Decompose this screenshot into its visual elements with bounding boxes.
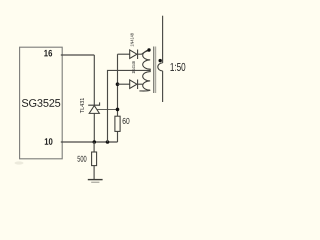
transformer T1 primary winding lower xyxy=(143,70,151,90)
wire TL431 anode down xyxy=(93,113,95,142)
wire resistor top to ref dot xyxy=(117,54,119,116)
wire secondary top xyxy=(162,16,164,63)
svg-text:60: 60 xyxy=(122,116,130,126)
wire secondary bottom xyxy=(162,71,164,102)
svg-text:16: 16 xyxy=(44,47,53,58)
ground bar 2 xyxy=(91,181,99,183)
wire pin10 rail xyxy=(61,141,118,143)
node polarity dot primary xyxy=(147,48,150,51)
wire pin16 vertical down to TL431 xyxy=(93,55,95,105)
faint smudge xyxy=(15,161,24,164)
diode D2 anode wire xyxy=(118,83,130,85)
transformer T1 primary winding upper xyxy=(143,51,151,71)
wire center-tap vertical xyxy=(108,70,151,142)
wire D2 cathode to winding xyxy=(138,83,144,85)
resistor R1 60 xyxy=(115,116,120,131)
node junction dot TL431/rail xyxy=(93,140,97,144)
ground xyxy=(88,179,103,181)
node junction dot centertap/rail xyxy=(106,140,110,144)
svg-text:1N4148: 1N4148 xyxy=(131,61,136,74)
wire pin16 horizontal xyxy=(61,54,95,56)
svg-text:10: 10 xyxy=(44,136,53,147)
diode D1 1N4148 xyxy=(130,50,138,60)
svg-text:1N4148: 1N4148 xyxy=(130,33,135,47)
transformer T1 secondary winding xyxy=(158,63,163,71)
svg-text:1:50: 1:50 xyxy=(170,62,186,74)
wire TL431 ref line xyxy=(97,108,117,110)
svg-text:SG3525: SG3525 xyxy=(21,98,60,110)
op-amp U1 SG3525 box xyxy=(20,47,63,159)
resistor R2 500 xyxy=(92,152,97,166)
wire D1 cathode to winding xyxy=(138,51,151,55)
svg-text:500: 500 xyxy=(77,154,87,164)
resistor R2 500 lead top xyxy=(93,142,95,152)
node junction dot ref xyxy=(116,108,120,112)
node polarity dot secondary xyxy=(159,59,162,62)
transformer core line 2 xyxy=(155,47,157,94)
transistor U2 TL431 xyxy=(88,102,99,113)
node junction dot D2 anode xyxy=(116,82,120,86)
wire anode-bus vertical x=117.5 xyxy=(117,131,119,142)
wire lower winding bottom lead hook xyxy=(139,89,150,92)
diode D1 anode wire xyxy=(118,53,130,55)
svg-text:TL431: TL431 xyxy=(80,98,86,114)
wire 500 to ground xyxy=(93,166,95,180)
diode D2 1N4148 xyxy=(130,80,138,90)
transformer core line 1 xyxy=(153,47,155,94)
